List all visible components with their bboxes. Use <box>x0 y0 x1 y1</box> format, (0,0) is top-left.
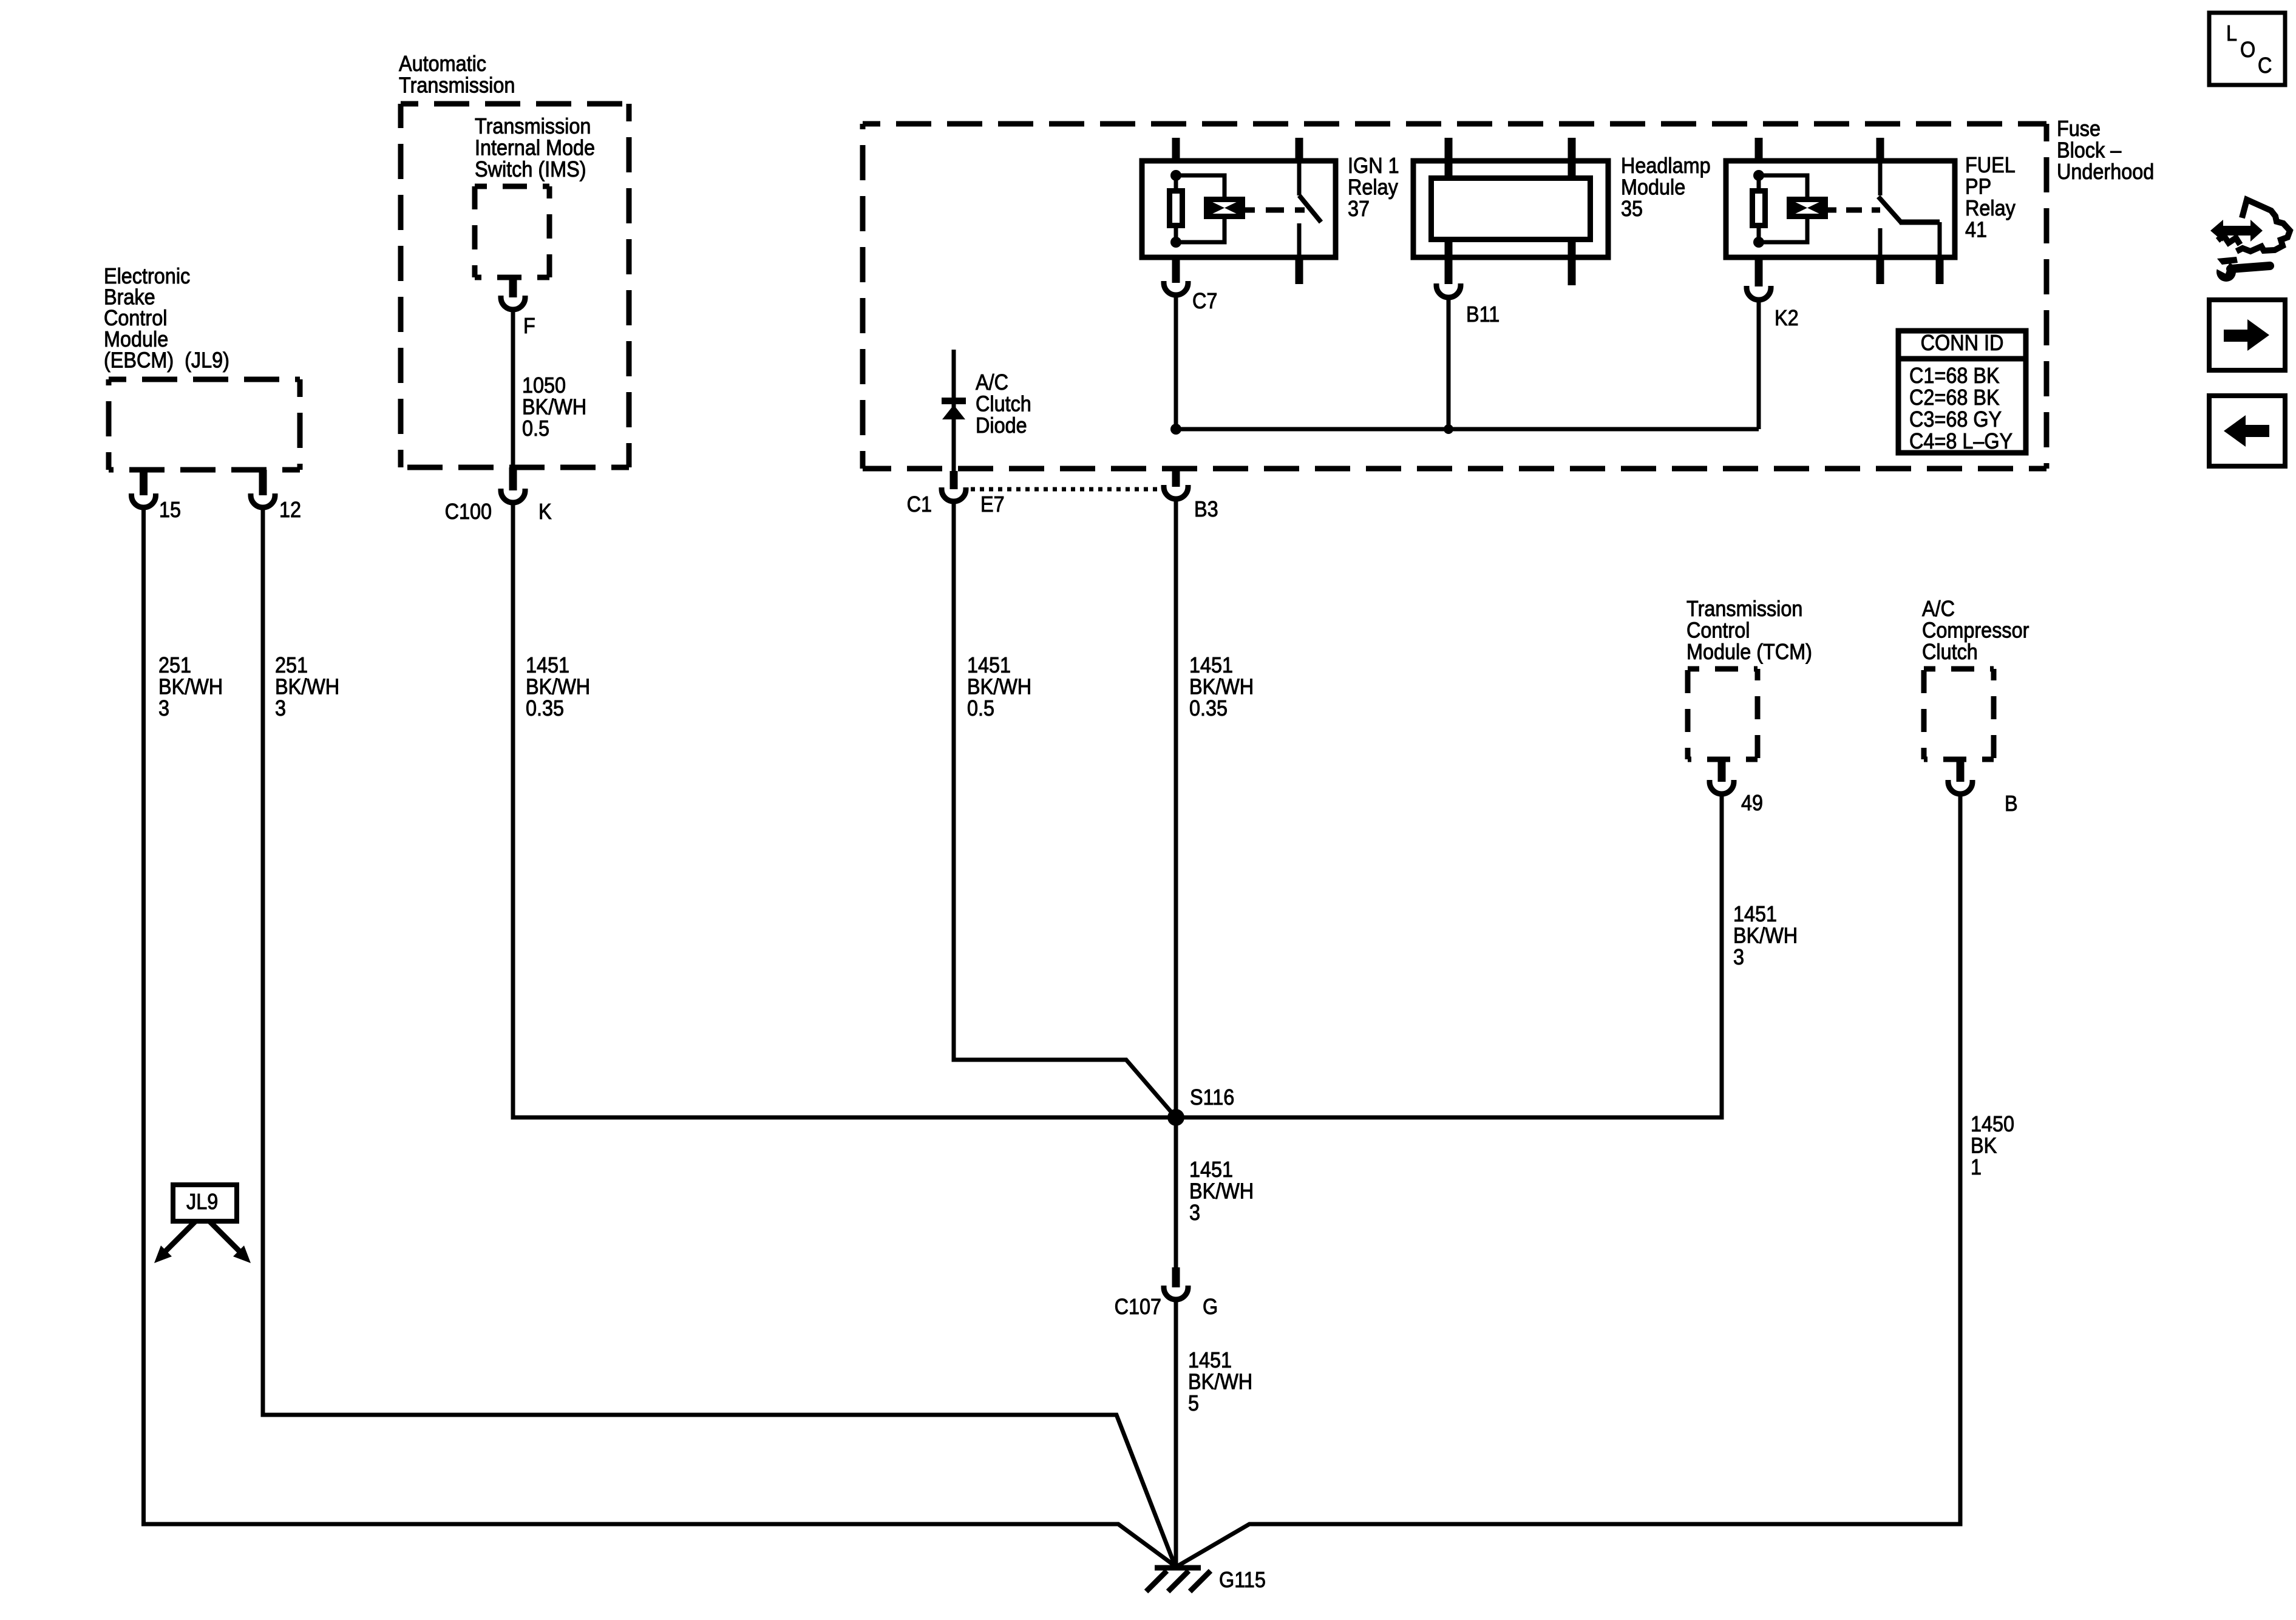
svg-text:1451: 1451 <box>1189 653 1233 677</box>
wire 1050 from F to C100 <box>511 310 515 467</box>
svg-text:G115: G115 <box>1219 1568 1266 1592</box>
svg-text:Module (TCM): Module (TCM) <box>1686 640 1812 664</box>
svg-text:Transmission: Transmission <box>475 114 591 138</box>
label K2 <box>1775 306 1799 330</box>
svg-text:S116: S116 <box>1190 1085 1234 1110</box>
svg-text:K: K <box>538 500 552 524</box>
relay FUEL PP Relay 41 <box>1726 138 1955 286</box>
wire 1451 from C100 to S116 <box>513 503 1172 1117</box>
label pin B <box>2005 791 2018 816</box>
svg-text:B: B <box>2005 791 2018 816</box>
svg-text:BK/WH: BK/WH <box>1188 1370 1252 1394</box>
fuse block dashed box <box>863 124 2046 469</box>
table CONN ID box <box>1898 331 2026 453</box>
svg-text:C1: C1 <box>907 492 932 517</box>
svg-text:Transmission: Transmission <box>1686 597 1802 621</box>
svg-text:Relay: Relay <box>1348 175 1399 200</box>
svg-text:B3: B3 <box>1194 497 1218 521</box>
svg-text:G: G <box>1203 1295 1218 1319</box>
label K <box>538 500 552 524</box>
label wire 251 BK/WH 3 (pin 12) <box>275 653 339 720</box>
svg-text:BK/WH: BK/WH <box>275 675 339 699</box>
label IGN 1 Relay 37 <box>1348 154 1399 221</box>
label Fuse Block - Underhood <box>2057 117 2154 184</box>
label wire 1050 BK/WH 0.5 <box>522 373 586 441</box>
svg-text:1451: 1451 <box>1189 1157 1233 1182</box>
svg-text:Fuse: Fuse <box>2057 117 2101 141</box>
label wire 1451 BK/WH 0.35 (C100) <box>526 653 590 720</box>
svg-text:3: 3 <box>1189 1201 1200 1225</box>
svg-text:L: L <box>2226 21 2237 46</box>
label wire 1451 BK/WH 0.5 <box>967 653 1031 720</box>
label B11 <box>1466 302 1500 327</box>
svg-text:A/C: A/C <box>1922 597 1955 621</box>
diode A/C Clutch Diode <box>942 350 966 471</box>
wire junction bus C7-B11-K2 <box>1176 427 1759 432</box>
svg-text:BK/WH: BK/WH <box>1733 924 1798 948</box>
svg-text:O: O <box>2240 38 2255 62</box>
label CONN ID header <box>1921 331 2004 355</box>
svg-text:Automatic: Automatic <box>399 52 486 76</box>
svg-text:1451: 1451 <box>1733 902 1777 926</box>
label A/C Compressor Clutch <box>1922 597 2029 664</box>
connector C7 <box>1164 281 1188 295</box>
svg-text:A/C: A/C <box>976 370 1008 395</box>
svg-text:1451: 1451 <box>1188 1348 1232 1372</box>
label E7 <box>980 492 1005 517</box>
label wire 1451 BK/WH 0.35 (B3) <box>1189 653 1254 720</box>
svg-text:Transmission: Transmission <box>399 73 515 98</box>
svg-text:B11: B11 <box>1466 302 1500 327</box>
label Automatic Transmission <box>399 52 515 97</box>
junction dot at C7 wire <box>1170 424 1181 435</box>
label A/C Clutch Diode <box>976 370 1031 438</box>
connector TCM pin 49 <box>1710 759 1734 794</box>
JL9 arrow left <box>154 1221 195 1263</box>
label wire 1451 BK/WH 3 (S116-C107) <box>1189 1157 1254 1225</box>
connector A/C pin B <box>1948 759 1972 794</box>
svg-text:0.5: 0.5 <box>522 416 549 441</box>
svg-text:JL9: JL9 <box>186 1190 218 1214</box>
svg-text:F: F <box>523 314 535 338</box>
svg-text:35: 35 <box>1621 197 1643 221</box>
label pin 12 <box>279 498 301 522</box>
label wire 1450 BK 1 <box>1971 1112 2014 1179</box>
wire 1451 from B3 to S116 <box>1174 499 1178 1117</box>
svg-text:3: 3 <box>275 696 286 720</box>
label FUEL PP Relay 41 <box>1965 153 2016 242</box>
junction dot at B11 wire <box>1444 424 1453 434</box>
svg-text:Clutch: Clutch <box>1922 640 1978 664</box>
svg-text:Clutch: Clutch <box>976 392 1031 416</box>
svg-text:Diode: Diode <box>976 413 1027 438</box>
svg-text:E7: E7 <box>980 492 1005 517</box>
svg-text:BK/WH: BK/WH <box>967 675 1031 699</box>
svg-text:Underhood: Underhood <box>2057 160 2154 184</box>
label Headlamp Module 35 <box>1621 154 1711 221</box>
wire S116 bus to TCM <box>1180 794 1722 1117</box>
dotted line E7 to B3 <box>971 487 1159 492</box>
ground G115 symbol <box>1146 1568 1211 1591</box>
wire C7 to B3 junction <box>1174 295 1178 429</box>
svg-text:C3=68 GY: C3=68 GY <box>1909 407 2002 432</box>
svg-text:C4=8 L–GY: C4=8 L–GY <box>1909 429 2012 453</box>
svg-text:3: 3 <box>158 696 169 720</box>
label F <box>523 314 535 338</box>
connector EBCM pin 15 <box>132 470 156 507</box>
svg-text:1050: 1050 <box>522 373 566 398</box>
svg-text:(EBCM) (JL9): (EBCM) (JL9) <box>104 348 229 373</box>
label wire 1451 BK/WH 3 (TCM) <box>1733 902 1798 969</box>
svg-text:251: 251 <box>275 653 308 677</box>
label Transmission Control Module (TCM) <box>1686 597 1812 664</box>
wire B11 to junction <box>1447 297 1451 429</box>
svg-text:37: 37 <box>1348 197 1370 221</box>
svg-text:BK/WH: BK/WH <box>526 675 590 699</box>
label G <box>1203 1295 1218 1319</box>
svg-text:5: 5 <box>1188 1391 1199 1415</box>
label wire 1451 BK/WH 5 <box>1188 1348 1252 1415</box>
svg-text:CONN ID: CONN ID <box>1921 331 2004 355</box>
label Transmission Internal Mode Switch (IMS) <box>475 114 595 181</box>
svg-text:BK: BK <box>1971 1134 1997 1158</box>
svg-text:BK/WH: BK/WH <box>1189 1179 1254 1204</box>
svg-text:BK/WH: BK/WH <box>1189 675 1254 699</box>
label C100 <box>445 500 492 524</box>
icon forward arrow box <box>2209 300 2285 370</box>
svg-text:Block –: Block – <box>2057 138 2122 163</box>
svg-text:15: 15 <box>159 498 181 522</box>
svg-text:1: 1 <box>1971 1155 1982 1179</box>
svg-text:49: 49 <box>1741 791 1763 815</box>
svg-text:Control: Control <box>1686 619 1750 643</box>
wire 251 from pin 12 to G115 <box>263 507 1175 1567</box>
wire 1451 C107 to G115 <box>1174 1300 1178 1567</box>
svg-text:Switch (IMS): Switch (IMS) <box>475 157 586 181</box>
wire 251 from pin 15 to G115 <box>144 507 1177 1567</box>
wire 1451 S116 to C107 <box>1174 1117 1178 1267</box>
connector C107 G <box>1164 1267 1188 1300</box>
wire K2 to junction <box>1757 300 1761 429</box>
svg-text:12: 12 <box>279 498 301 522</box>
svg-text:Module: Module <box>1621 175 1685 200</box>
module EBCM label <box>104 264 229 372</box>
label C107 <box>1115 1295 1161 1319</box>
svg-text:1450: 1450 <box>1971 1112 2014 1136</box>
svg-text:0.5: 0.5 <box>967 696 994 720</box>
module A/C Compressor Clutch dashed box <box>1924 669 1994 759</box>
label pin 49 <box>1741 791 1763 815</box>
connector B11 <box>1436 283 1461 297</box>
svg-text:251: 251 <box>158 653 191 677</box>
svg-text:Relay: Relay <box>1965 196 2016 220</box>
svg-text:0.35: 0.35 <box>526 696 564 720</box>
svg-text:41: 41 <box>1965 218 1987 242</box>
label G115 <box>1219 1568 1266 1592</box>
svg-text:3: 3 <box>1733 945 1744 969</box>
connector EBCM pin 12 <box>251 470 275 507</box>
label wire 251 BK/WH 3 (pin 15) <box>158 653 223 720</box>
label pin 15 <box>159 498 181 522</box>
icon back arrow box <box>2209 396 2285 466</box>
wire 1450 from B to G115 <box>1177 794 1960 1567</box>
svg-text:1451: 1451 <box>526 653 569 677</box>
relay IGN 1 Relay 37 <box>1142 138 1336 284</box>
icon vehicle with wrench <box>2210 200 2290 282</box>
svg-text:Headlamp: Headlamp <box>1621 154 1711 178</box>
svg-text:1451: 1451 <box>967 653 1011 677</box>
label C7 <box>1192 289 1217 313</box>
label B3 <box>1194 497 1218 521</box>
module EBCM dashed box <box>109 379 300 470</box>
svg-text:C107: C107 <box>1115 1295 1161 1319</box>
svg-text:PP: PP <box>1965 175 1991 199</box>
svg-text:BK/WH: BK/WH <box>522 395 586 419</box>
svg-text:Compressor: Compressor <box>1922 619 2029 643</box>
label S116 <box>1190 1085 1234 1110</box>
connector C1 E7 <box>942 471 966 501</box>
module Headlamp Module 35 <box>1413 138 1608 285</box>
module Automatic Transmission dashed box <box>401 104 629 467</box>
icon LOC box <box>2209 13 2285 85</box>
connector B3 <box>1164 471 1188 499</box>
module TCM dashed box <box>1688 669 1758 759</box>
splice S116 dot <box>1167 1109 1184 1126</box>
connector F <box>501 277 525 310</box>
connector K2 <box>1747 286 1771 300</box>
svg-text:IGN 1: IGN 1 <box>1348 154 1399 178</box>
svg-text:Internal Mode: Internal Mode <box>475 136 595 160</box>
svg-text:C2=68 BK: C2=68 BK <box>1909 385 2000 410</box>
option flag JL9 box <box>173 1185 237 1221</box>
JL9 arrow right <box>209 1221 251 1263</box>
svg-text:C100: C100 <box>445 500 492 524</box>
svg-text:C1=68 BK: C1=68 BK <box>1909 364 2000 388</box>
connector C100 K <box>501 467 525 503</box>
svg-text:C: C <box>2258 53 2272 78</box>
svg-text:C7: C7 <box>1192 289 1217 313</box>
svg-text:FUEL: FUEL <box>1965 153 2016 177</box>
svg-text:0.35: 0.35 <box>1189 696 1228 720</box>
svg-text:BK/WH: BK/WH <box>158 675 223 699</box>
switch IMS dashed box <box>475 186 549 277</box>
label CONN ID rows <box>1909 364 2012 453</box>
label C1 <box>907 492 932 517</box>
wire 1451 from C1 to S116 <box>954 501 1176 1117</box>
svg-text:K2: K2 <box>1775 306 1799 330</box>
